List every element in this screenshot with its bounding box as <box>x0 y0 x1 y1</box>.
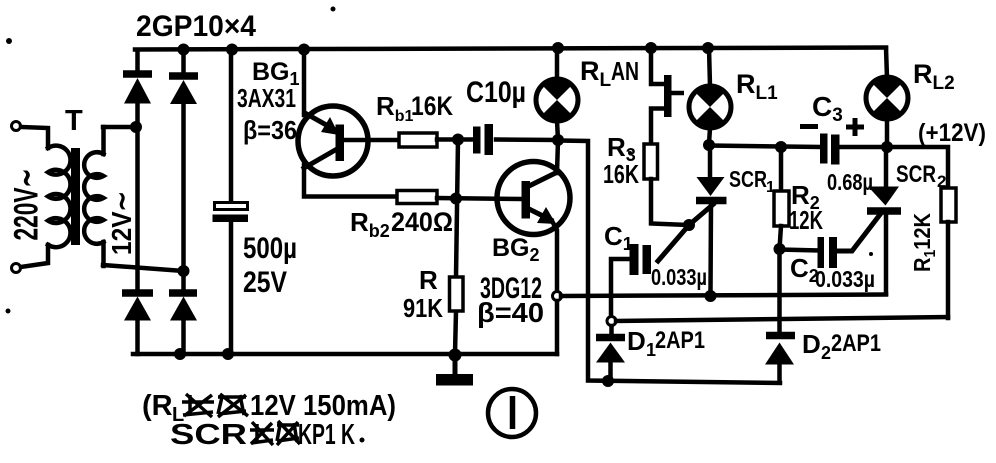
node junction C10u RL BG2-collector <box>552 134 564 146</box>
diode bridge upper-right <box>169 76 198 104</box>
node BG2 emitter open circle <box>553 292 562 301</box>
wire Rb2 to BG2 base <box>437 198 521 199</box>
label 2GP10x4 for bridge diodes <box>136 10 256 43</box>
scribble crossed-out chars line 1 <box>182 394 248 417</box>
node junction RL1 SCR1 wire <box>703 139 715 151</box>
scribble crossed-out chars line 2 <box>250 421 300 445</box>
label 240ohm <box>391 207 453 237</box>
wire gate line to R1 <box>616 317 948 321</box>
thyristor SCR2 <box>837 147 901 294</box>
label 220V~ rotated <box>8 169 46 241</box>
resistor R3 <box>644 144 658 179</box>
svg-text:KP1 K: KP1 K <box>298 419 355 451</box>
resistor R1 <box>887 147 956 318</box>
label 3DG12 <box>480 272 542 305</box>
svg-text:12K: 12K <box>789 205 823 235</box>
label AN <box>611 56 639 86</box>
capacitor C3 plates <box>820 134 840 165</box>
svg-text:12V 150mA): 12V 150mA) <box>250 390 396 422</box>
diode D1 <box>596 326 625 381</box>
wire trigger line from node to D anodes <box>560 141 780 384</box>
resistor R2 <box>774 147 789 249</box>
capacitor C 500u plates <box>213 203 249 223</box>
label circuit note line 1 <box>142 390 396 426</box>
node top rail junction right column <box>178 44 190 56</box>
wire R2 node to C2 <box>780 250 819 251</box>
node: AC input terminal lower <box>12 264 21 273</box>
wire BG1 collector down and right to Rb2 <box>304 165 397 197</box>
node bottom rail junction filter cap <box>222 348 234 360</box>
wire secondary bottom to bridge <box>103 265 183 271</box>
label R2 <box>791 180 820 213</box>
label 3AX31 <box>237 83 296 113</box>
label 25V <box>243 266 287 299</box>
label BG1 <box>252 58 300 89</box>
label R of 91K <box>419 265 438 295</box>
resistor R 91K <box>450 277 464 311</box>
label 16K for Rb1 <box>411 91 453 121</box>
capacitor C 500u filter leads <box>229 50 234 354</box>
label C3 with polarity <box>800 91 864 136</box>
diode bridge lower-right <box>169 293 197 321</box>
transformer T core <box>71 148 80 245</box>
label beta=36 <box>243 115 297 145</box>
label +12V <box>918 119 986 147</box>
wire top rail <box>135 48 886 50</box>
svg-text:16K: 16K <box>603 159 639 189</box>
svg-text:SCR: SCR <box>896 161 936 188</box>
wire R3 to SCR1 gate <box>651 179 689 225</box>
node junction R2 C2 D2 <box>774 243 786 255</box>
wire AC lower lead <box>21 245 48 267</box>
transformer T primary winding <box>48 146 70 248</box>
svg-text:240Ω: 240Ω <box>391 207 453 237</box>
wire cathode common line <box>561 295 886 297</box>
node junction secondary bottom to right column <box>178 265 190 277</box>
label D2 2AP1 <box>802 329 881 363</box>
svg-text:R: R <box>419 265 438 295</box>
svg-text:β=40: β=40 <box>477 297 544 328</box>
wire RL1 node to C3 to RL2 node <box>709 146 887 148</box>
svg-text:2AP1: 2AP1 <box>831 330 881 357</box>
svg-text:0.033µ: 0.033µ <box>651 264 707 290</box>
svg-text:D: D <box>802 329 821 359</box>
label RL1 <box>736 69 778 104</box>
svg-text:β=36: β=36 <box>243 115 297 145</box>
wire vertical through R 91K <box>455 139 458 354</box>
lamp RL <box>536 48 578 140</box>
label T <box>65 105 83 137</box>
label 0.033u for C2 <box>815 266 875 292</box>
label C1 <box>604 221 633 254</box>
resistor Rb1 <box>399 133 437 147</box>
svg-text:R112K: R112K <box>909 213 939 272</box>
svg-text:T: T <box>65 105 83 137</box>
label R1 12K rotated <box>909 213 939 272</box>
svg-text:12V∼: 12V∼ <box>106 191 137 255</box>
label SCR1 <box>729 166 775 196</box>
svg-text:2: 2 <box>821 343 831 363</box>
wire BG2 emitter to bottom rail <box>555 301 560 354</box>
svg-text:C10µ: C10µ <box>466 76 526 109</box>
label 16K for R3 <box>603 159 639 189</box>
lamp RL1 <box>689 48 731 144</box>
label Rb2 <box>350 207 390 241</box>
diode bridge lower-left <box>122 293 153 321</box>
label 12K for R2 <box>789 205 823 235</box>
label R3 <box>607 132 636 165</box>
label 91K <box>403 293 443 323</box>
wire secondary top to bridge <box>103 125 136 130</box>
resistor Rb2 <box>397 191 437 204</box>
node top rail junction filter cap <box>226 44 238 56</box>
node junction Rb1 C10u R91K <box>452 134 464 146</box>
svg-text:3AX31: 3AX31 <box>237 83 296 113</box>
svg-text:220V∼: 220V∼ <box>8 169 46 241</box>
transistor BG2 <box>497 162 570 235</box>
label SCR2 <box>896 161 946 191</box>
svg-text:(R: (R <box>142 390 173 422</box>
node top rail junction lamp RL <box>552 42 564 54</box>
label C2 <box>790 253 819 286</box>
wire C1 to D1 node <box>611 259 630 317</box>
svg-text:91K: 91K <box>403 293 443 323</box>
svg-text:2AP1: 2AP1 <box>655 327 705 354</box>
node SCR1 cathode junction <box>705 290 717 302</box>
node bottom rail junction R and ground <box>449 349 462 362</box>
capacitor C2 plates <box>818 237 838 268</box>
svg-text:25V: 25V <box>243 266 287 299</box>
node top rail junction BG1 emitter <box>298 44 310 56</box>
wire C10u to RL node <box>496 137 558 142</box>
svg-text:0.033µ: 0.033µ <box>815 266 875 292</box>
label BG2 <box>492 234 540 265</box>
label 12V~ rotated <box>106 191 137 255</box>
svg-text:500µ: 500µ <box>243 232 297 265</box>
svg-text:SCR: SCR <box>170 419 247 451</box>
diode bridge upper-left <box>123 74 152 104</box>
label beta=40 <box>477 297 544 328</box>
diode D2 <box>765 336 795 383</box>
node figure number circle 1 <box>488 389 536 437</box>
label 0.68u <box>827 169 873 195</box>
node SCR1 gate junction <box>683 219 695 231</box>
node top rail junction lamp RL1 <box>702 42 714 54</box>
wire left bridge column <box>135 50 140 354</box>
svg-text:2GP10×4: 2GP10×4 <box>136 10 256 43</box>
svg-text:D: D <box>627 326 646 356</box>
wire secondary straight segments <box>101 127 106 266</box>
node junction base line with R91K line <box>450 193 462 205</box>
capacitor C1 plates <box>630 244 652 275</box>
label circuit note line 2 <box>170 419 355 451</box>
svg-text:(+12V): (+12V) <box>918 119 986 147</box>
wire BG1 emitter from top rail <box>302 50 307 115</box>
svg-text:16K: 16K <box>411 91 453 121</box>
transistor BG1 <box>298 106 368 176</box>
node D1 open circle <box>607 317 616 326</box>
wire bottom rail <box>133 352 557 357</box>
node D1 anode junction <box>602 375 614 387</box>
node junction on left diode column <box>130 121 142 133</box>
label 0.033u for C1 <box>651 264 707 290</box>
label Rb1 <box>376 91 414 125</box>
transformer T secondary winding <box>84 152 103 244</box>
node junction R2 top <box>775 141 787 153</box>
switch AN pushbutton <box>651 48 684 144</box>
node: AC input terminal upper <box>12 122 21 131</box>
ground <box>436 356 473 386</box>
svg-text:SCR: SCR <box>729 166 767 192</box>
wire D2 cathode column <box>777 249 782 332</box>
node bottom rail junction left column <box>174 348 186 360</box>
label RL <box>580 56 612 91</box>
label D1 2AP1 <box>627 326 705 360</box>
svg-text:AN: AN <box>611 56 639 86</box>
wire BG2 collector up to node <box>557 140 558 173</box>
wire AC upper lead <box>21 127 48 148</box>
label RL2 <box>913 59 955 94</box>
wire right bridge column <box>181 50 186 354</box>
wire BG1 base to Rb1 <box>341 138 399 143</box>
thyristor SCR1 <box>658 145 727 293</box>
lamp RL2 <box>866 48 908 147</box>
capacitor C10u plates <box>473 124 493 155</box>
label 500u <box>243 232 297 265</box>
label C10u <box>466 76 526 109</box>
node top rail junction AN <box>645 42 657 54</box>
node junction RL2 SCR2 R1 <box>881 141 893 153</box>
wire Rb1 to C10u node <box>437 137 473 142</box>
wire BG2 emitter down <box>552 221 557 291</box>
svg-text:0.68µ: 0.68µ <box>827 169 873 195</box>
